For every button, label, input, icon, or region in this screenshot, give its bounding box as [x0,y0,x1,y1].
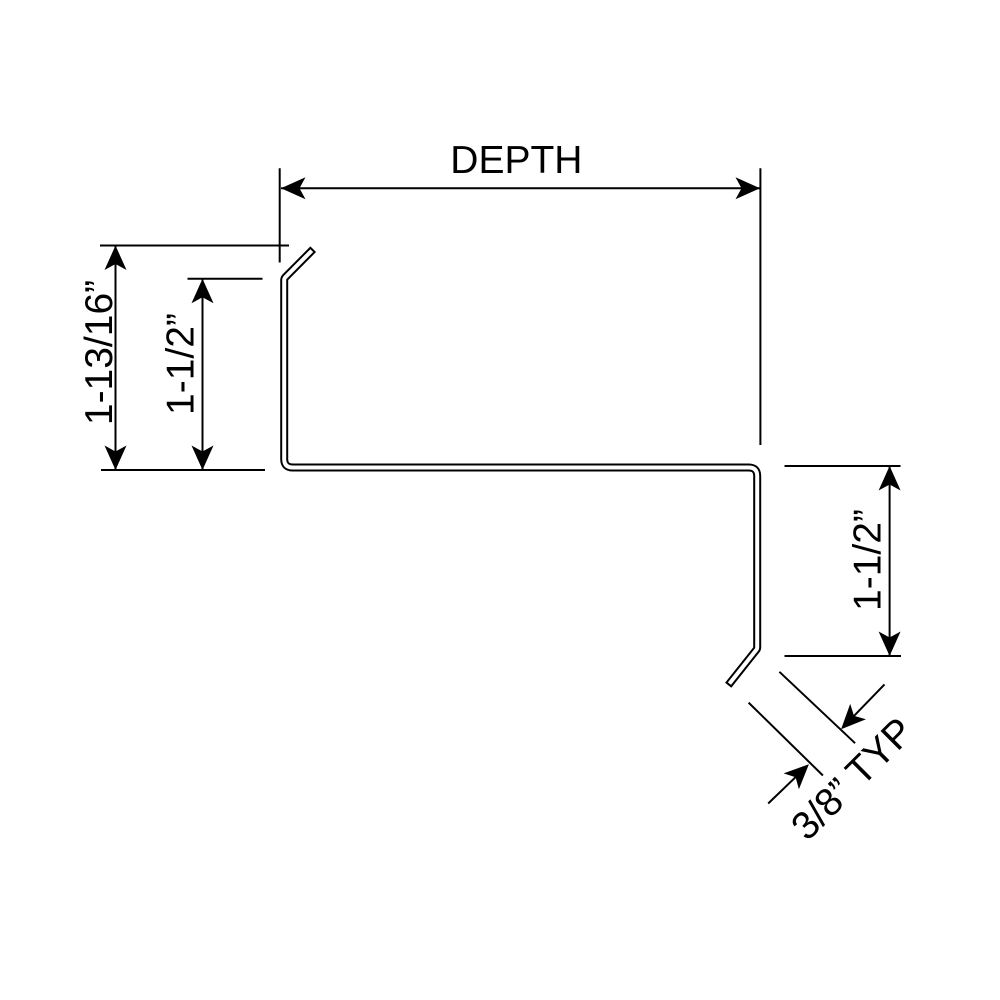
svg-text:1-13/16”: 1-13/16” [78,280,121,425]
svg-text:1-1/2”: 1-1/2” [160,313,203,415]
svg-text:DEPTH: DEPTH [450,139,582,182]
svg-text:1-1/2”: 1-1/2” [847,509,890,611]
svg-text:3/8” TYP: 3/8” TYP [783,710,922,849]
